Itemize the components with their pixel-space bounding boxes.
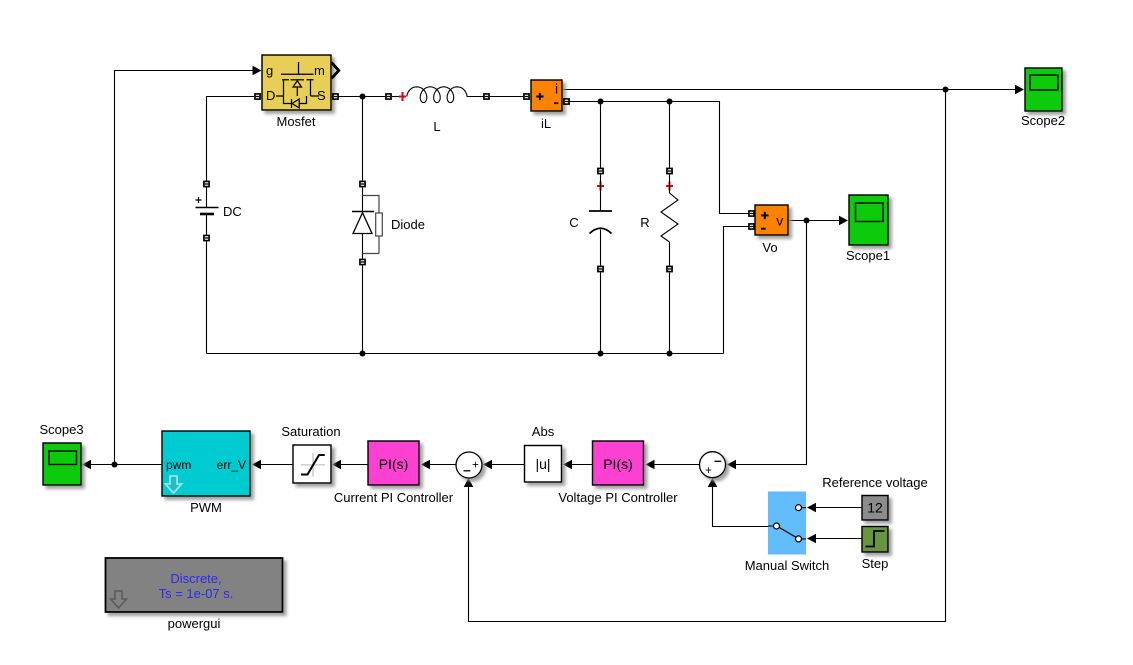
wire Saturation to PWM err_V <box>255 464 293 466</box>
port Diode cathode <box>359 259 366 266</box>
junction node diode bottom on rail <box>360 351 366 357</box>
arrowhead into Voltage PI <box>646 460 655 470</box>
arrowhead into Scope1 <box>839 216 848 226</box>
wire DC+ to Mosfet D <box>207 97 255 181</box>
junction node Diode top branch <box>360 94 366 100</box>
port C top <box>597 168 604 175</box>
svg-text:Ts = 1e-07 s.: Ts = 1e-07 s. <box>159 586 234 601</box>
svg-text:pwm: pwm <box>166 458 191 472</box>
wire Vo feedback down to voltage summer <box>729 221 807 465</box>
port DC - <box>203 235 210 242</box>
svg-text:Discrete,: Discrete, <box>170 571 221 586</box>
junction node iL feedback <box>943 87 949 93</box>
wire iL - output to Vo + <box>562 102 748 214</box>
Mosfet m output port chevron <box>332 63 339 79</box>
svg-text:Scope2: Scope2 <box>1021 113 1065 128</box>
arrowhead up into voltage summer <box>708 478 718 487</box>
svg-text:Voltage PI Controller: Voltage PI Controller <box>558 490 678 505</box>
port Vo - input <box>748 223 755 230</box>
svg-text:err_V: err_V <box>217 458 246 472</box>
svg-text:PI(s): PI(s) <box>603 456 633 472</box>
junction node capacitor top <box>598 99 604 105</box>
port DC + <box>203 181 210 188</box>
arrowhead into Scope2 <box>1015 85 1024 95</box>
diode snubber branch <box>363 196 383 254</box>
junction node resistor top <box>667 99 673 105</box>
wire iL i output to Scope2 <box>562 89 1022 91</box>
wire Vo output to Scope1 <box>788 220 846 222</box>
svg-text:Reference voltage: Reference voltage <box>822 475 928 490</box>
svg-text:PWM: PWM <box>190 500 222 515</box>
port inductor right <box>483 93 490 100</box>
PI controller Current PI <box>368 441 419 485</box>
arrowhead into voltage summer right <box>727 460 736 470</box>
svg-text:Scope3: Scope3 <box>39 422 83 437</box>
svg-text:12: 12 <box>867 500 883 516</box>
svg-text:R: R <box>640 215 649 230</box>
wire Voltage PI to Abs <box>565 464 593 466</box>
saturation block <box>293 445 331 483</box>
wire bottom rail <box>207 353 724 355</box>
voltage sensor Vo <box>755 205 788 235</box>
wire Mosfet S to inductor <box>331 96 386 98</box>
powergui block <box>106 558 283 612</box>
wire current summer to Current PI <box>424 464 456 466</box>
svg-text:Vo: Vo <box>762 240 777 255</box>
port R bottom <box>666 266 673 273</box>
svg-text:|u|: |u| <box>535 456 550 472</box>
port inductor left <box>385 93 392 100</box>
transistor Mosfet block <box>262 55 331 110</box>
junction on PWM output wire <box>112 462 118 468</box>
svg-text:Step: Step <box>862 556 889 571</box>
svg-text:+: + <box>705 465 712 477</box>
node polarity + of capacitor <box>597 182 604 191</box>
svg-text:Abs: Abs <box>532 424 555 439</box>
svg-text:D: D <box>266 88 275 103</box>
port iL + input <box>523 93 530 100</box>
node polarity + of inductor <box>399 92 406 101</box>
port R top <box>666 168 673 175</box>
svg-text:iL: iL <box>541 116 551 131</box>
wire Current PI to Saturation <box>334 464 368 466</box>
svg-text:Scope1: Scope1 <box>846 248 890 263</box>
svg-text:i: i <box>555 81 558 97</box>
wire DC- down to rail <box>206 242 208 354</box>
summer current sum1 <box>456 452 482 478</box>
svg-text:v: v <box>776 213 783 229</box>
arrowhead into Scope3 <box>82 460 91 470</box>
junction node Vo feedback <box>804 218 810 224</box>
subsystem PWM <box>162 431 250 496</box>
wire PWM output to Scope3 and up to Mosfet gate <box>85 71 254 465</box>
svg-text:g: g <box>266 63 273 78</box>
arrowhead into current summer right <box>483 460 492 470</box>
svg-text:+: + <box>472 460 479 472</box>
svg-text:L: L <box>433 119 440 134</box>
svg-text:m: m <box>314 63 325 78</box>
scope Scope2 <box>1025 68 1062 111</box>
wire resistor bottom down to rail <box>669 273 671 354</box>
wire Manual Switch output to voltage summer <box>713 480 769 527</box>
wire inductor internal lead <box>392 96 400 98</box>
svg-text:Manual Switch: Manual Switch <box>745 558 830 573</box>
step source block <box>862 527 888 553</box>
arrowhead into Current PI <box>421 460 430 470</box>
svg-text:powergui: powergui <box>168 616 221 631</box>
svg-text:C: C <box>569 215 578 230</box>
wire inductor to iL + <box>479 96 523 98</box>
wire Abs to current summer <box>485 464 525 466</box>
arrowhead into Saturation <box>332 460 341 470</box>
wire capacitor bottom down to rail <box>600 273 602 354</box>
arrowhead into Manual Switch upper input <box>807 503 816 513</box>
svg-text:Current PI Controller: Current PI Controller <box>334 490 454 505</box>
abs block <box>525 446 562 483</box>
arrowhead up into current summer <box>464 478 474 487</box>
svg-text:DC: DC <box>223 204 242 219</box>
capacitor C <box>589 175 612 266</box>
PI controller Voltage PI <box>593 441 644 485</box>
summer voltage sum2 <box>700 452 726 478</box>
arrowhead into Manual Switch lower input <box>807 534 816 544</box>
svg-text:Diode: Diode <box>391 217 425 232</box>
arrowhead into Mosfet gate g <box>253 66 262 76</box>
wire Reference voltage 12 to Manual Switch <box>808 507 862 509</box>
current sensor iL <box>531 80 562 111</box>
wire capacitor branch <box>600 102 602 169</box>
port Mosfet S <box>332 93 339 100</box>
port iL - output <box>563 98 570 105</box>
constant Reference voltage 12 <box>862 496 888 521</box>
scope Scope1 <box>849 195 888 245</box>
wire diode bottom down to rail <box>362 266 364 354</box>
wire resistor branch <box>669 102 671 169</box>
wire Diode branch down <box>362 97 364 182</box>
svg-text:Mosfet: Mosfet <box>276 114 315 129</box>
diode D1 <box>352 188 374 259</box>
wire iL feedback down and around to current summer <box>469 90 946 622</box>
port Vo + input <box>748 210 755 217</box>
junction node capacitor bottom on rail <box>598 351 604 357</box>
wire voltage summer to Voltage PI <box>648 464 699 466</box>
svg-text:PI(s): PI(s) <box>379 456 409 472</box>
port Diode anode <box>359 181 366 188</box>
svg-text:Saturation: Saturation <box>281 424 340 439</box>
arrowhead into PWM err_V <box>252 460 261 470</box>
manual switch block <box>768 492 806 555</box>
port C bottom <box>597 266 604 273</box>
node polarity + of resistor <box>666 182 673 191</box>
wire Vo - return to bottom rail <box>724 227 749 354</box>
scope Scope3 <box>43 443 81 485</box>
arrowhead into Abs <box>563 460 572 470</box>
port Mosfet D <box>254 93 261 100</box>
resistor R <box>661 175 678 266</box>
DC voltage source battery <box>196 188 219 235</box>
wire Step to Manual Switch <box>808 538 862 540</box>
junction node resistor bottom on rail <box>667 351 673 357</box>
inductor L coil <box>407 87 480 103</box>
